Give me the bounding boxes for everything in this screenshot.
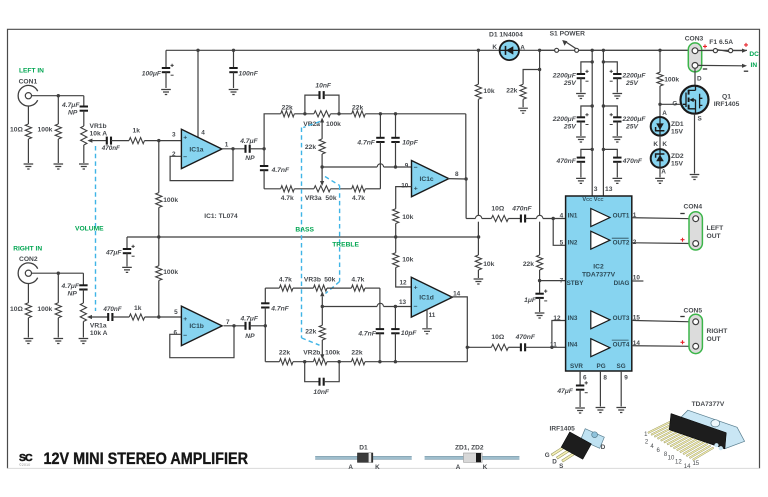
svg-text:IN2: IN2: [568, 240, 578, 247]
capacitor 10pF IC1c feedback: [395, 114, 397, 138]
resistor 10k IC1c bias upper: [393, 209, 399, 224]
svg-text:D: D: [697, 75, 702, 82]
ground VR1b: [79, 164, 89, 169]
svg-text:K: K: [375, 464, 380, 471]
capacitor 100uF top left: [165, 50, 167, 68]
svg-text:22k: 22k: [305, 144, 316, 151]
svg-text:CON5: CON5: [684, 307, 703, 314]
svg-text:RIGHT IN: RIGHT IN: [13, 245, 42, 252]
svg-text:K: K: [653, 141, 658, 148]
resistor 1k right: [129, 314, 145, 320]
ground SVR: [575, 408, 585, 413]
wire Vcc pin3 vertical: [591, 49, 594, 52]
svg-text:5: 5: [560, 240, 564, 247]
svg-text:IN: IN: [751, 62, 758, 69]
svg-text:15V: 15V: [671, 161, 683, 168]
svg-text:+: +: [414, 186, 418, 193]
wire 470nF to 1k: [111, 140, 129, 142]
svg-text:VR3a: VR3a: [305, 195, 322, 202]
svg-text:−: −: [183, 154, 187, 161]
svg-text:IRF1405: IRF1405: [714, 101, 740, 108]
svg-text:©2010: ©2010: [19, 463, 30, 467]
potentiometer VR1a 10k A: [80, 303, 86, 322]
svg-text:4: 4: [201, 129, 205, 136]
svg-text:4.7nF: 4.7nF: [357, 331, 376, 338]
resistor 22k rowB right: [351, 359, 365, 365]
node cap branch row2: [591, 104, 594, 107]
wire OUT2 to CON4: [632, 242, 692, 245]
svg-text:OUT3: OUT3: [613, 315, 630, 322]
resistor 22k VR2a wiper to mid: [319, 139, 325, 154]
svg-text:OUT2: OUT2: [613, 240, 630, 247]
svg-text:PG: PG: [597, 363, 606, 370]
svg-text:470nF: 470nF: [102, 306, 121, 313]
ground ZD2: [655, 178, 665, 183]
wiper VR1a: [87, 315, 92, 319]
svg-text:NP: NP: [68, 110, 78, 117]
svg-text:TDA7377V: TDA7377V: [582, 271, 616, 278]
svg-text:10: 10: [633, 274, 641, 281]
resistor 10ohm IN4: [491, 344, 508, 350]
node rail 100k gate: [658, 49, 661, 52]
wire divider to bias rail: [477, 222, 479, 255]
ground 22k pulldown: [518, 108, 528, 113]
svg-text:OUT: OUT: [707, 233, 722, 240]
svg-text:10Ω: 10Ω: [491, 205, 504, 212]
svg-text:SG: SG: [617, 363, 626, 370]
wire gate to Q1: [660, 103, 680, 105]
svg-text:OUT1: OUT1: [613, 213, 630, 220]
resistor 22k row1 right: [352, 111, 366, 117]
wire F1 to DC+: [733, 50, 742, 52]
resistor 4.7k rowA right: [351, 285, 365, 291]
capacitor 10pF IC1d feedback: [394, 307, 396, 329]
ground 100nF: [229, 90, 239, 95]
wire ZD2 ground: [659, 168, 661, 178]
svg-text:A: A: [456, 464, 461, 471]
svg-text:470nF: 470nF: [622, 158, 643, 165]
svg-text:ZD2: ZD2: [671, 153, 684, 160]
ground 10k divider: [474, 279, 484, 284]
svg-text:A: A: [348, 464, 353, 471]
amp triangle OUT2: [591, 231, 610, 249]
legend TDA7377V pins: [648, 421, 714, 461]
node IC1b pin5 bias: [157, 315, 160, 318]
svg-text:50k: 50k: [325, 195, 336, 202]
svg-text:ZD1, ZD2: ZD1, ZD2: [455, 445, 484, 452]
node rail 10k divider: [477, 49, 480, 52]
svg-text:10k: 10k: [483, 88, 494, 95]
capacitor 4.7nF left vertical right-ch: [264, 288, 266, 303]
svg-text:A: A: [661, 169, 666, 176]
node rail-IC1a pin4: [196, 49, 199, 52]
wire half-supply bias rail: [127, 236, 479, 238]
svg-text:CON4: CON4: [684, 203, 703, 210]
ground 100uF: [161, 90, 171, 95]
wire CON3 minus to DC-: [698, 64, 742, 66]
svg-text:470nF: 470nF: [101, 145, 120, 152]
svg-text:4.7μF: 4.7μF: [61, 102, 80, 109]
wire row3 left (treble row): [264, 188, 281, 190]
svg-text:IC1b: IC1b: [189, 323, 204, 330]
svg-text:VR1b: VR1b: [90, 123, 107, 130]
svg-text:D1 1N4004: D1 1N4004: [489, 32, 523, 39]
wiper VR1b: [87, 139, 92, 143]
wire OUT4 to CON5: [632, 345, 692, 348]
svg-text:IC1c: IC1c: [420, 176, 434, 183]
svg-text:10pF: 10pF: [402, 139, 419, 146]
svg-text:14: 14: [684, 464, 691, 470]
svg-text:IN4: IN4: [568, 341, 578, 348]
svg-text:12: 12: [399, 279, 407, 286]
node mid row left: [320, 165, 323, 168]
svg-text:K: K: [492, 44, 497, 51]
svg-text:2200μF: 2200μF: [552, 116, 577, 123]
resistor 22k STBY: [537, 255, 543, 270]
svg-text:25V: 25V: [625, 123, 638, 130]
potentiometer VR3b 50k: [313, 285, 327, 291]
ground 100k right input: [54, 339, 64, 344]
capacitor 2200μF 25V right col row2: [603, 106, 617, 117]
svg-text:9: 9: [624, 375, 628, 382]
capacitor 470nF IN4: [520, 343, 522, 351]
resistor 22k pulldown: [523, 70, 540, 85]
svg-text:IC1a: IC1a: [189, 146, 203, 153]
svg-text:S: S: [559, 463, 563, 470]
connector CON1 RCA: [18, 85, 38, 106]
resistor 100k gate: [659, 50, 661, 72]
svg-text:IN3: IN3: [568, 315, 578, 322]
svg-text:A: A: [520, 45, 525, 52]
svg-text:25V: 25V: [563, 80, 576, 87]
wiper VR2a arrow: [320, 118, 324, 123]
node 22k pulldown branch: [538, 68, 541, 71]
svg-text:10k: 10k: [402, 257, 413, 264]
svg-text:4.7nF: 4.7nF: [356, 139, 375, 146]
svg-text:3: 3: [594, 186, 598, 193]
wire 470nF to 1k right: [112, 316, 129, 318]
svg-text:10pF: 10pF: [401, 330, 418, 337]
potentiometer VR2b 100k: [313, 359, 327, 365]
wire to tone network left: [250, 148, 264, 150]
resistor 4.7k rowA left: [279, 285, 293, 291]
wire Vcc pin13 vertical: [602, 49, 605, 52]
IC2 TDA7377V block: [566, 196, 632, 371]
ground VR1a: [79, 339, 89, 344]
capacitor 470nF left: [106, 137, 108, 145]
svg-text:22k: 22k: [279, 350, 290, 357]
resistor 1k left: [129, 138, 145, 144]
svg-text:11: 11: [429, 312, 436, 319]
wire SVR pin6: [579, 371, 581, 385]
svg-text:−: −: [414, 165, 418, 172]
svg-text:G: G: [672, 101, 677, 108]
svg-text:VR1a: VR1a: [90, 323, 107, 330]
op-amp IC1a: [181, 129, 221, 168]
wire IC1a feedback: [170, 149, 233, 181]
connector CON2 RCA: [18, 263, 38, 284]
ground right col row3: [613, 178, 623, 183]
svg-text:+: +: [183, 316, 187, 323]
capacitor 1uF STBY: [539, 281, 541, 294]
svg-text:25V: 25V: [563, 123, 576, 130]
svg-text:F1 6.5A: F1 6.5A: [709, 39, 733, 46]
svg-text:A: A: [662, 110, 667, 117]
capacitor 4.7uF NP right input: [82, 273, 84, 285]
svg-text:D: D: [552, 459, 557, 466]
svg-text:CON1: CON1: [19, 79, 38, 86]
ground 10ohm right: [24, 339, 34, 344]
svg-text:IN1: IN1: [568, 213, 578, 220]
svg-text:100k: 100k: [326, 121, 341, 128]
capacitor 100nF: [232, 49, 235, 52]
legend zener body: [425, 456, 520, 459]
ground 10ohm: [24, 164, 34, 169]
legend TDA7377V tab: [669, 410, 744, 449]
wire IC1d out to IN4 row: [467, 346, 470, 348]
svg-text:10: 10: [401, 182, 409, 189]
amp triangle OUT3: [591, 311, 610, 329]
svg-text:15V: 15V: [671, 129, 683, 136]
resistor 10k divider top: [477, 50, 479, 84]
svg-text:7: 7: [560, 277, 564, 284]
wire to tone network right ch: [250, 325, 266, 327]
wire IN1 row: [466, 218, 475, 220]
wire feedback row top (left ch): [264, 114, 281, 149]
wire rowB bass row: [265, 361, 279, 363]
capacitor 4.7nF left vertical (left ch): [263, 149, 265, 166]
node STBY 1uF: [538, 279, 541, 282]
potentiometer VR2a 100k: [314, 111, 331, 117]
resistor 4.7k row3 left: [281, 186, 295, 192]
wire pin9 mid row: [322, 166, 377, 168]
svg-text:D: D: [601, 444, 606, 451]
wire OUT1 to CON4: [632, 218, 692, 219]
svg-text:TDA7377V: TDA7377V: [692, 401, 725, 408]
svg-text:4: 4: [560, 213, 564, 220]
svg-text:22k: 22k: [305, 328, 316, 335]
wiper VR2b arrow: [320, 354, 324, 359]
node IC1a pin3 bias: [157, 139, 160, 142]
svg-text:5: 5: [174, 309, 178, 316]
wire Q1 source: [694, 114, 696, 174]
svg-text:1μF: 1μF: [524, 297, 537, 304]
op-amp IC1d: [411, 277, 452, 317]
svg-text:50k: 50k: [324, 276, 335, 283]
resistor 22k row1 left: [281, 111, 295, 117]
node cap branch row3: [591, 148, 594, 151]
node IN3-IN4 tie: [550, 346, 553, 349]
svg-text:STBY: STBY: [567, 280, 585, 287]
svg-text:10Ω: 10Ω: [491, 334, 504, 341]
capacitor 4.7nF right vertical (left ch): [379, 114, 381, 138]
wire CON2 to 4.7uF: [32, 272, 84, 274]
wire SG pin9: [620, 371, 622, 407]
capacitor 47uF SVR: [576, 385, 584, 387]
ground Q1 source: [690, 175, 700, 180]
svg-text:Q1: Q1: [722, 94, 731, 101]
svg-text:CON3: CON3: [685, 36, 704, 43]
ground IC1d pin11: [422, 329, 432, 334]
svg-text:9: 9: [405, 162, 409, 169]
resistor 22k rowB left: [279, 359, 293, 365]
svg-text:4.7nF: 4.7nF: [270, 306, 289, 313]
potentiometer VR3a 50k: [314, 186, 331, 192]
node 10nF bridge left: [303, 112, 306, 115]
plus DC IN: [744, 43, 748, 47]
svg-text:LEFT IN: LEFT IN: [19, 68, 44, 75]
svg-text:100k: 100k: [37, 306, 52, 313]
svg-text:RIGHT: RIGHT: [707, 328, 729, 335]
ground right col row2: [613, 137, 623, 142]
svg-text:22k: 22k: [352, 105, 363, 112]
node rail-STBY branch: [538, 49, 541, 52]
svg-text:CON2: CON2: [19, 256, 38, 263]
svg-text:4.7nF: 4.7nF: [271, 167, 290, 174]
svg-text:NP: NP: [245, 333, 255, 340]
capacitor 4.7uF NP IC1b out: [244, 322, 246, 330]
wire IC1a output: [221, 148, 245, 150]
svg-text:10Ω: 10Ω: [10, 306, 23, 313]
svg-text:−: −: [414, 304, 418, 311]
capacitor 470nF left col row3: [581, 149, 592, 157]
resistor 100k IC1a bias: [158, 141, 160, 193]
svg-text:100k: 100k: [325, 350, 340, 357]
op-amp IC1b: [181, 306, 222, 346]
svg-text:VR2b: VR2b: [303, 350, 320, 357]
svg-text:NP: NP: [68, 291, 78, 298]
svg-text:2200μF: 2200μF: [622, 73, 647, 80]
svg-text:8: 8: [455, 171, 459, 178]
svg-text:OUT: OUT: [707, 336, 722, 343]
svg-text:47μF: 47μF: [556, 388, 573, 395]
wiper VR3a arrow: [321, 167, 323, 182]
wire IC1c feedback down: [465, 114, 467, 179]
capacitor 2200μF 25V right col row1: [603, 62, 617, 74]
svg-text:DIAG: DIAG: [614, 280, 630, 287]
svg-text:13: 13: [605, 186, 613, 193]
wire pin13 mid row: [322, 306, 377, 308]
svg-text:47μF: 47μF: [105, 250, 122, 257]
wire IC1c pin10 bias: [396, 187, 412, 209]
node input junction 100k right: [57, 272, 60, 275]
svg-text:NP: NP: [245, 155, 255, 162]
wire IC1b feedback: [170, 326, 234, 358]
svg-text:1: 1: [225, 141, 229, 148]
wire STBY vertical: [539, 50, 541, 215]
svg-text:22k: 22k: [351, 350, 362, 357]
svg-text:15: 15: [692, 461, 699, 467]
wire DIAG stub: [632, 280, 644, 282]
TREBLE dashed gang line: [325, 177, 340, 186]
svg-text:25V: 25V: [625, 80, 638, 87]
svg-text:3: 3: [172, 131, 176, 138]
capacitor 470nF right col row3: [603, 149, 617, 157]
node cap branch row1: [591, 60, 594, 63]
wire STBY vertical lower: [539, 222, 541, 255]
legend diode D1 body: [315, 456, 412, 459]
resistor 10ohm right input: [27, 284, 29, 303]
svg-text:8: 8: [603, 375, 607, 382]
svg-text:10nF: 10nF: [313, 389, 330, 396]
resistor 4.7k row3 right: [352, 186, 366, 192]
amp triangle OUT4: [591, 339, 610, 357]
amp triangle OUT1: [591, 209, 610, 227]
svg-text:D1: D1: [359, 445, 368, 452]
wire +12V top rail: [166, 49, 747, 51]
node IN1-IN2 tie: [552, 217, 555, 220]
svg-text:22k: 22k: [523, 261, 534, 268]
wire STBY to IC2: [540, 280, 566, 282]
svg-text:100nF: 100nF: [239, 71, 259, 78]
legend TDA7377V body: [669, 414, 726, 449]
wire IN3 jog: [552, 321, 566, 348]
ground 100k input: [54, 164, 64, 169]
wire IC1c output: [448, 178, 466, 180]
svg-text:BASS: BASS: [295, 227, 314, 234]
resistor 100k IC1b bias: [158, 237, 160, 266]
wire IN1 into IC2: [537, 215, 543, 218]
ground 1uF: [535, 313, 545, 318]
svg-text:LEFT: LEFT: [707, 225, 725, 232]
wire rowA treble row right ch: [265, 287, 279, 289]
svg-text:10k: 10k: [483, 261, 494, 268]
wire IC1b output: [224, 325, 245, 327]
capacitor 2200μF 25V left col row1: [581, 62, 592, 74]
wire IN4 row: [467, 346, 491, 348]
svg-text:S1 POWER: S1 POWER: [550, 31, 585, 38]
capacitor 4.7uF NP IC1a out: [244, 145, 246, 153]
svg-text:13: 13: [399, 299, 407, 306]
svg-text:4.7μF: 4.7μF: [239, 138, 258, 145]
VOLUME dashed gang line: [95, 146, 97, 311]
wire IC1a pin4 supply: [197, 50, 199, 137]
ground left col row2: [576, 137, 586, 142]
capacitor 10nF bridge (left ch): [305, 95, 320, 114]
svg-text:4.7k: 4.7k: [351, 276, 364, 283]
svg-text:12V MINI STEREO AMPLIFIER: 12V MINI STEREO AMPLIFIER: [44, 449, 249, 468]
svg-text:100k: 100k: [163, 269, 178, 276]
ground 47uF bias: [122, 267, 132, 272]
svg-text:IC2: IC2: [593, 264, 604, 271]
svg-text:+: +: [414, 285, 418, 292]
svg-text:IC1: TL074: IC1: TL074: [204, 213, 238, 220]
svg-text:G: G: [545, 452, 550, 459]
resistor 10k divider bottom: [475, 255, 481, 270]
svg-text:+: +: [183, 134, 187, 141]
svg-text:DC: DC: [749, 51, 759, 58]
wire ZD1-ZD2: [659, 136, 661, 150]
wiper VR3b arrow: [320, 291, 324, 296]
resistor 100k right input: [57, 273, 59, 303]
svg-text:7: 7: [226, 319, 230, 326]
ground left col row3: [576, 178, 586, 183]
wire OUT3 to CON5: [632, 320, 692, 321]
svg-text:100k: 100k: [163, 197, 178, 204]
svg-text:VR3b: VR3b: [304, 276, 321, 283]
svg-text:10: 10: [668, 455, 675, 461]
capacitor 470nF right: [107, 313, 109, 321]
svg-text:11: 11: [550, 341, 557, 348]
node gate ZD1: [658, 103, 661, 106]
svg-text:12: 12: [553, 315, 561, 322]
ground right col row1: [613, 94, 623, 99]
svg-text:100μF: 100μF: [142, 71, 162, 78]
svg-text:10k: 10k: [402, 214, 413, 221]
wire IC1d output: [450, 297, 468, 362]
op-amp IC1c: [412, 161, 449, 197]
svg-text:470nF: 470nF: [555, 158, 576, 165]
